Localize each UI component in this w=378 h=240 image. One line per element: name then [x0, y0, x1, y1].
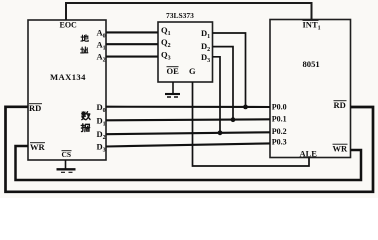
- IC U1 MAX134 box: [28, 20, 106, 160]
- pin D2 label (latch input): [201, 41, 210, 53]
- svg-text:Q1: Q1: [161, 25, 171, 37]
- svg-text:WR: WR: [30, 142, 46, 152]
- pin D0 label: [97, 102, 106, 114]
- svg-text:73LS373: 73LS373: [166, 11, 194, 20]
- label 数据 (data) drawn as strokes: [81, 112, 90, 132]
- pin D2 label: [97, 129, 106, 141]
- svg-text:P0.0: P0.0: [272, 103, 287, 112]
- svg-text:INT1: INT1: [303, 20, 321, 32]
- pin OE label (latch, active low): [167, 66, 180, 76]
- wire latch D1 input to P0.0 line: [213, 33, 246, 107]
- svg-text:CS: CS: [62, 150, 72, 159]
- svg-text:P0.3: P0.3: [272, 137, 287, 146]
- IC U2 73LS373 box: [158, 22, 213, 82]
- pin P0.3 label: [272, 137, 287, 146]
- svg-text:Q2: Q2: [161, 37, 171, 49]
- svg-text:A0: A0: [97, 28, 106, 40]
- label MAX134: [50, 72, 86, 82]
- pin A0 label: [97, 28, 106, 40]
- pin D3 label: [97, 142, 106, 154]
- svg-text:G: G: [189, 66, 196, 76]
- wire A1 to Q2: [106, 43, 158, 45]
- svg-text:D3: D3: [97, 142, 106, 154]
- pin WR label (8051, active low): [333, 144, 349, 154]
- wire EOC to INT1 (top interrupt line): [66, 3, 312, 20]
- wire data bus D2 to P0.2: [106, 132, 270, 134]
- ground symbol under OE: [165, 94, 180, 97]
- svg-text:A1: A1: [97, 40, 106, 52]
- pin G label (latch enable): [189, 66, 196, 76]
- svg-text:D2: D2: [97, 129, 106, 141]
- wire data bus D3 to P0.3: [106, 143, 270, 146]
- svg-text:ALE: ALE: [300, 149, 318, 159]
- pin INT1 label (active low): [303, 20, 321, 32]
- wire RD loop: MAX134 RD to 8051 RD around bottom: [6, 107, 374, 192]
- wire data bus D1 to P0.1: [106, 119, 270, 120]
- pin Q3 label: [161, 50, 171, 62]
- svg-text:EOC: EOC: [60, 21, 78, 30]
- pin P0.1 label: [272, 114, 287, 123]
- wire data bus D0 to P0.0: [106, 106, 270, 108]
- pin D1 label (latch input): [201, 28, 210, 40]
- svg-text:D3: D3: [201, 52, 210, 64]
- pin ALE label: [300, 149, 318, 159]
- svg-text:8051: 8051: [303, 59, 320, 69]
- wire WR loop: MAX134 WR to 8051 WR around bottom: [16, 146, 362, 180]
- svg-text:WR: WR: [333, 144, 349, 154]
- IC U3 8051 box: [270, 20, 351, 158]
- label 8051: [303, 59, 320, 69]
- wire latch D3 input to P0.2 line: [213, 57, 221, 133]
- svg-text:P0.2: P0.2: [272, 127, 287, 136]
- pin RD label (8051, active low): [334, 100, 347, 110]
- pin D1 label: [97, 116, 106, 128]
- ground symbol under CS: [57, 169, 76, 172]
- svg-text:D1: D1: [97, 116, 106, 128]
- label 地址 (address) drawn as strokes: [81, 35, 89, 53]
- svg-text:P0.1: P0.1: [272, 114, 287, 123]
- pin WR label (MAX134, active low): [30, 142, 46, 152]
- pin P0.0 label: [272, 103, 287, 112]
- svg-text:MAX134: MAX134: [50, 72, 86, 82]
- pin CS label (MAX134, active low): [62, 150, 72, 159]
- junction dot at P0.2 / latch D3: [218, 130, 223, 135]
- svg-text:D1: D1: [201, 28, 210, 40]
- pin D3 label (latch input): [201, 52, 210, 64]
- wire A0 to Q1: [106, 31, 158, 33]
- junction dot at P0.1 / latch D2: [231, 117, 236, 122]
- wire latch D2 input to P0.1 line: [213, 47, 234, 120]
- junction dot at P0.0 / latch D1: [243, 105, 248, 110]
- svg-text:A2: A2: [97, 52, 106, 64]
- svg-text:OE: OE: [167, 66, 180, 76]
- pin RD label (MAX134, active low): [29, 103, 42, 113]
- wire G to ALE: [193, 82, 310, 166]
- svg-text:Q3: Q3: [161, 50, 171, 62]
- pin P0.2 label: [272, 127, 287, 136]
- pin Q2 label: [161, 37, 171, 49]
- pin Q1 label: [161, 25, 171, 37]
- svg-text:RD: RD: [334, 100, 346, 110]
- pin EOC label: [60, 21, 78, 30]
- label 73LS373: [166, 11, 194, 20]
- wire CS stem to ground: [65, 160, 67, 169]
- pin A1 label: [97, 40, 106, 52]
- pin A2 label: [97, 52, 106, 64]
- wire OE stem to ground: [172, 82, 174, 94]
- svg-text:RD: RD: [29, 103, 41, 113]
- svg-text:D0: D0: [97, 102, 106, 114]
- wire A2 to Q3: [106, 56, 158, 58]
